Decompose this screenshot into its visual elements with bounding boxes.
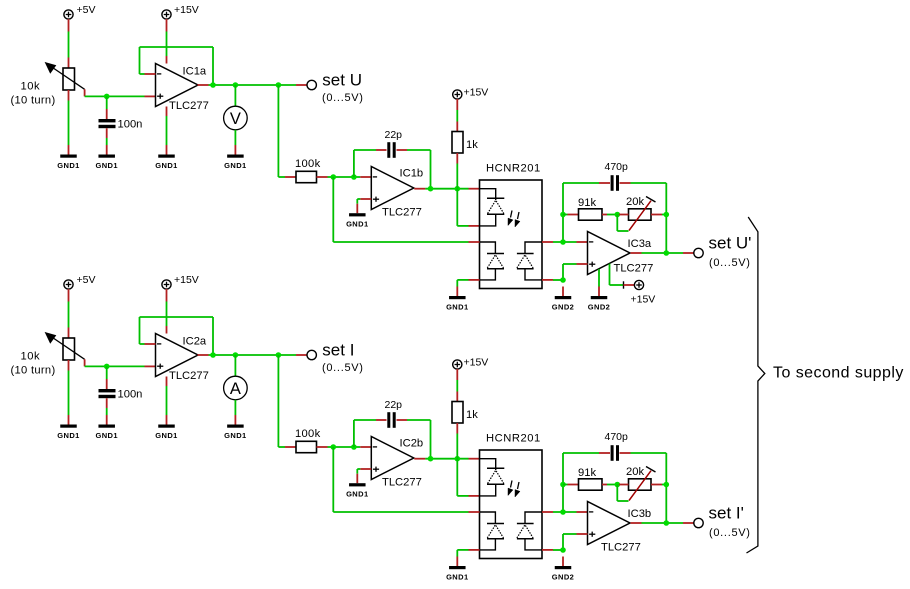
svg-text:GND1: GND1 xyxy=(446,573,468,582)
wire +15V to 1k xyxy=(456,99,458,132)
svg-text:set U: set U xyxy=(322,71,362,90)
capacitor 22p feedback IC2b xyxy=(354,399,431,459)
resistor 91k xyxy=(563,467,617,490)
junction 20k/column xyxy=(664,212,670,218)
junction column/91k xyxy=(560,482,566,488)
ground GND1 xyxy=(155,415,177,440)
optocoupler HCNR201 set U xyxy=(480,163,543,289)
wire +15V to 1k xyxy=(456,369,458,402)
ground GND1 xyxy=(346,474,368,499)
feedback wire IC2a output to - input xyxy=(140,317,214,355)
svg-text:10k: 10k xyxy=(21,81,41,93)
wire +5V to potentiometer xyxy=(68,289,70,338)
svg-text:TLC277: TLC277 xyxy=(169,100,209,112)
potentiometer 10k (10 turn) set I xyxy=(11,333,85,377)
wire branch down to 100k xyxy=(278,355,296,447)
svg-text:IC3a: IC3a xyxy=(628,238,652,250)
wire IC1b output to optocoupler LED xyxy=(425,188,479,190)
IC2b output pin xyxy=(414,458,425,460)
capacitor 100n set I xyxy=(99,366,143,415)
svg-text:IC3b: IC3b xyxy=(628,508,652,520)
wire 1k to output junction and LED anode xyxy=(457,153,479,226)
junction wiper/100n xyxy=(104,364,110,370)
IC2b + input pin to ground xyxy=(357,469,371,474)
wire IC3b output to terminal set I' xyxy=(642,522,694,524)
junction column/91k xyxy=(560,212,566,218)
junction 1k/output xyxy=(455,186,461,192)
label set I' xyxy=(709,504,751,540)
wire IC1a V- pin to ground xyxy=(166,107,168,146)
svg-text:GND1: GND1 xyxy=(346,220,368,229)
svg-text:IC1b: IC1b xyxy=(400,168,424,180)
junction 1k/output xyxy=(455,456,461,462)
wire IC3a V+ pin to +15V xyxy=(610,264,635,289)
capacitor 100n set U xyxy=(99,96,143,145)
svg-text:TLC277: TLC277 xyxy=(601,542,641,554)
trimmer 20k xyxy=(619,196,666,231)
label set I xyxy=(322,341,364,375)
svg-text:GND1: GND1 xyxy=(95,161,117,170)
svg-text:(0...5V): (0...5V) xyxy=(709,527,751,539)
terminal pad set I' xyxy=(694,518,703,527)
wire 1k to output junction and LED anode xyxy=(457,423,479,496)
svg-text:+15V: +15V xyxy=(464,87,489,99)
ground GND1 xyxy=(95,415,117,440)
junction + input/ground xyxy=(560,547,566,553)
resistor 1k xyxy=(452,132,478,154)
potentiometer 10k (10 turn) set U xyxy=(11,63,85,107)
svg-text:+15V: +15V xyxy=(174,274,199,286)
terminal pad set I xyxy=(307,350,316,359)
wire to meter V xyxy=(234,85,236,106)
svg-text:A: A xyxy=(230,380,241,398)
svg-text:(0...5V): (0...5V) xyxy=(322,92,364,104)
svg-text:(0...5V): (0...5V) xyxy=(322,362,364,374)
wire +15V to IC1a V+ pin xyxy=(166,19,168,64)
ground GND1 xyxy=(224,145,246,170)
label set U xyxy=(322,71,364,105)
supply +15V (IC2a) xyxy=(162,274,199,289)
optocoupler HCNR201 set I xyxy=(480,433,543,559)
svg-text:HCNR201: HCNR201 xyxy=(486,433,541,445)
HCNR201 pin stubs xyxy=(469,242,554,280)
meter A xyxy=(224,376,248,400)
svg-text:91k: 91k xyxy=(578,467,596,479)
junction 100k/photodiode xyxy=(331,444,337,450)
svg-text:(10 turn): (10 turn) xyxy=(11,95,56,107)
IC1b + input pin to ground xyxy=(357,199,371,204)
junction column/- input xyxy=(560,239,566,245)
junction 20k/column xyxy=(664,482,670,488)
svg-text:TLC277: TLC277 xyxy=(382,207,422,219)
trimmer 20k xyxy=(619,466,666,501)
resistor 100k set I xyxy=(295,428,321,453)
junction 100k/photodiode xyxy=(331,174,337,180)
svg-text:GND1: GND1 xyxy=(57,431,79,440)
junction feedback xyxy=(210,82,216,88)
ground GND1 xyxy=(224,415,246,440)
supply +5V (set U section) xyxy=(64,4,96,19)
svg-text:+5V: +5V xyxy=(77,274,96,286)
wire IC3a output to terminal set U' xyxy=(642,252,694,254)
resistor 91k xyxy=(563,197,617,220)
svg-text:GND1: GND1 xyxy=(155,161,177,170)
wire photodiode 1 feedback to summing node xyxy=(333,447,468,512)
IC2a - input pin xyxy=(145,343,156,345)
wire LED cathode side to ground xyxy=(457,550,468,557)
ground GND2 xyxy=(552,557,574,582)
ground GND1 xyxy=(346,204,368,229)
svg-text:V: V xyxy=(230,110,241,128)
ground GND1 xyxy=(57,415,79,440)
svg-text:GND2: GND2 xyxy=(552,573,574,582)
op-amp IC2b TLC277 xyxy=(371,437,423,489)
svg-text:GND1: GND1 xyxy=(95,431,117,440)
wire LED cathode side to ground xyxy=(457,280,468,287)
resistor 1k xyxy=(452,402,478,424)
IC1b output pin xyxy=(414,188,425,190)
svg-text:100n: 100n xyxy=(118,389,143,401)
junction output/feedback column xyxy=(664,250,670,256)
svg-text:100k: 100k xyxy=(295,158,321,170)
junction wiper/100n xyxy=(104,94,110,100)
wire photodiode 2 to feedback column xyxy=(553,183,599,242)
svg-text:91k: 91k xyxy=(578,197,596,209)
wire to terminal set I xyxy=(296,354,307,356)
svg-text:GND2: GND2 xyxy=(552,303,574,312)
wire branch down to 100k xyxy=(278,85,296,177)
junction branch to 100k xyxy=(276,82,282,88)
junction column/- input xyxy=(560,509,566,515)
svg-text:GND2: GND2 xyxy=(588,303,610,312)
supply +15V (IC3a) xyxy=(631,280,656,305)
wire IC2b output to optocoupler LED xyxy=(425,458,479,460)
op-amp IC3a TLC277 xyxy=(588,232,654,275)
wire trimmer wiper xyxy=(617,485,628,502)
svg-text:set U': set U' xyxy=(709,234,752,253)
wire +5V to potentiometer xyxy=(68,19,70,68)
svg-text:TLC277: TLC277 xyxy=(169,370,209,382)
junction 22p feedback xyxy=(351,174,357,180)
IC3b + input wire xyxy=(553,534,588,550)
junction 22p/output xyxy=(428,456,434,462)
wire IC2a V- pin to ground xyxy=(166,377,168,416)
svg-text:+15V: +15V xyxy=(174,4,199,16)
supply +5V (set I section) xyxy=(64,274,96,289)
IC1a output pin xyxy=(198,84,209,86)
svg-text:+15V: +15V xyxy=(631,294,656,306)
svg-text:100k: 100k xyxy=(295,428,321,440)
wire +15V to IC2a V+ pin xyxy=(166,289,168,334)
ground GND1 xyxy=(95,145,117,170)
terminal pad set U' xyxy=(694,248,703,257)
svg-text:IC1a: IC1a xyxy=(183,66,207,78)
svg-text:+15V: +15V xyxy=(464,357,489,369)
IC1a - input pin xyxy=(145,73,156,75)
wire potentiometer to ground xyxy=(68,360,70,415)
svg-text:set I': set I' xyxy=(709,504,744,523)
supply +15V (IC1a) xyxy=(162,4,199,19)
wire pot wiper to op-amp + input xyxy=(85,89,156,96)
op-amp IC1a TLC277 xyxy=(156,64,209,113)
svg-text:470p: 470p xyxy=(605,161,629,173)
ground GND1 xyxy=(446,557,468,582)
wire meter to ground xyxy=(234,130,236,145)
svg-text:GND1: GND1 xyxy=(346,490,368,499)
IC3a output pin xyxy=(631,252,642,254)
meter V xyxy=(224,106,248,130)
capacitor 470p feedback IC3a xyxy=(599,161,666,253)
op-amp IC3b TLC277 xyxy=(588,502,652,554)
wire to terminal set U xyxy=(296,84,307,86)
svg-text:100n: 100n xyxy=(118,119,143,131)
svg-text:IC2a: IC2a xyxy=(183,336,207,348)
supply +15V (1k) xyxy=(453,87,489,100)
svg-text:TLC277: TLC277 xyxy=(382,477,422,489)
junction 22p/output xyxy=(428,186,434,192)
junction feedback xyxy=(210,352,216,358)
svg-text:TLC277: TLC277 xyxy=(614,263,654,275)
wire pot wiper to op-amp + input xyxy=(85,359,156,366)
wire to meter A xyxy=(234,355,236,376)
supply +15V (1k) xyxy=(453,357,489,370)
wire photodiode 1 feedback to summing node xyxy=(333,177,468,242)
svg-text:GND1: GND1 xyxy=(57,161,79,170)
wire IC3a V- pin to ground xyxy=(598,269,600,287)
svg-text:(0...5V): (0...5V) xyxy=(709,257,751,269)
svg-text:1k: 1k xyxy=(466,139,478,151)
IC2a output pin xyxy=(198,354,209,356)
svg-text:GND1: GND1 xyxy=(224,161,246,170)
ground GND2 xyxy=(588,287,610,312)
svg-text:GND1: GND1 xyxy=(155,431,177,440)
junction branch to 100k xyxy=(276,352,282,358)
wire IC2a output net xyxy=(209,354,297,356)
junction meter tap xyxy=(233,82,239,88)
svg-text:GND1: GND1 xyxy=(446,303,468,312)
svg-text:HCNR201: HCNR201 xyxy=(486,163,541,175)
svg-text:(10 turn): (10 turn) xyxy=(11,365,56,377)
op-amp IC2a TLC277 xyxy=(156,334,209,383)
ground GND1 xyxy=(155,145,177,170)
svg-text:22p: 22p xyxy=(385,399,403,411)
svg-text:1k: 1k xyxy=(466,409,478,421)
IC3b output pin xyxy=(631,522,642,524)
svg-text:20k: 20k xyxy=(626,466,644,478)
junction 91k/20k xyxy=(615,212,621,218)
svg-text:To second supply: To second supply xyxy=(773,365,904,382)
brace to second supply xyxy=(747,217,765,553)
wire IC1a output net xyxy=(209,84,297,86)
wire potentiometer to ground xyxy=(68,90,70,145)
op-amp IC1b TLC277 xyxy=(371,167,423,219)
wire trimmer wiper xyxy=(617,215,628,232)
label To second supply xyxy=(773,365,904,382)
feedback wire IC1a output to - input xyxy=(140,47,214,85)
junction output/feedback column xyxy=(664,520,670,526)
wire 100k to summing node xyxy=(317,176,372,178)
capacitor 22p feedback IC1b xyxy=(354,129,431,189)
label set U' xyxy=(709,234,752,270)
ground GND2 xyxy=(552,287,574,312)
ground GND1 xyxy=(57,145,79,170)
junction 22p feedback xyxy=(351,444,357,450)
svg-text:+5V: +5V xyxy=(77,4,96,16)
svg-text:20k: 20k xyxy=(626,196,644,208)
HCNR201 pin stubs xyxy=(469,512,554,550)
svg-text:470p: 470p xyxy=(605,431,629,443)
svg-text:GND1: GND1 xyxy=(224,431,246,440)
svg-text:set I: set I xyxy=(322,341,354,360)
capacitor 470p feedback IC3b xyxy=(599,431,666,523)
terminal pad set U xyxy=(307,80,316,89)
svg-text:IC2b: IC2b xyxy=(400,438,424,450)
junction 91k/20k xyxy=(615,482,621,488)
junction meter tap xyxy=(233,352,239,358)
wire photodiode 2 to feedback column xyxy=(553,453,599,512)
ground GND1 xyxy=(446,287,468,312)
wire 100k to summing node xyxy=(317,446,372,448)
junction + input/ground xyxy=(560,277,566,283)
IC3a + input wire xyxy=(553,264,588,280)
wire meter to ground xyxy=(234,400,236,415)
svg-text:10k: 10k xyxy=(21,351,41,363)
svg-text:22p: 22p xyxy=(385,129,403,141)
resistor 100k set U xyxy=(295,158,321,183)
